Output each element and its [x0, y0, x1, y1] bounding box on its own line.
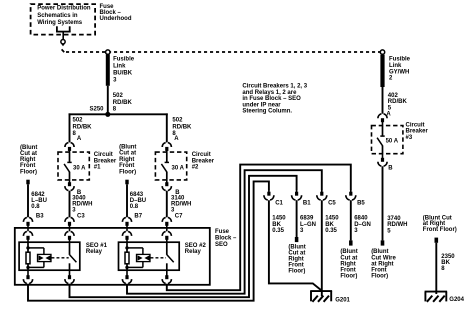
connector at fuse block top	[65, 217, 68, 221]
connector A of circuit breaker #1	[65, 143, 68, 147]
connector B1	[292, 195, 296, 200]
svg-text:(Blunt: (Blunt	[371, 249, 388, 255]
svg-text:GY/WH: GY/WH	[389, 69, 409, 75]
fusible link GY/WH (right)	[380, 50, 384, 54]
svg-text:1450: 1450	[325, 216, 339, 222]
svg-text:3040: 3040	[72, 196, 86, 202]
wire: 502 RD/BK 8 left branch	[69, 113, 71, 142]
svg-text:502: 502	[172, 118, 183, 124]
wire: 3740 RD/WH 5	[382, 166, 384, 240]
svg-text:Right: Right	[119, 157, 134, 163]
svg-text:RD/BK: RD/BK	[113, 100, 133, 106]
svg-text:(Blunt: (Blunt	[119, 145, 136, 151]
svg-text:Schematics in: Schematics in	[37, 13, 78, 19]
svg-text:under IP near: under IP near	[242, 102, 281, 108]
svg-text:6840: 6840	[354, 216, 368, 222]
svg-text:Cut at: Cut at	[20, 151, 37, 157]
svg-text:3740: 3740	[387, 216, 401, 222]
svg-text:BK: BK	[272, 222, 281, 228]
connector B of circuit breaker #1	[65, 186, 68, 190]
relay SEO #1	[19, 242, 80, 270]
svg-text:RD/BK: RD/BK	[388, 99, 408, 105]
wire: relay2 coil to C5	[127, 170, 322, 294]
svg-text:BK: BK	[441, 260, 450, 266]
svg-text:Floor): Floor)	[371, 274, 388, 280]
svg-text:D–GN: D–GN	[354, 222, 371, 228]
svg-text:Right: Right	[288, 257, 303, 263]
svg-text:3140: 3140	[171, 196, 185, 202]
connector B of circuit breaker #2	[162, 186, 165, 190]
svg-text:at Right: at Right	[371, 261, 393, 267]
svg-text:Circuit: Circuit	[94, 152, 113, 158]
svg-text:Fusible: Fusible	[389, 57, 411, 63]
svg-text:Link: Link	[113, 63, 126, 69]
svg-text:Relay: Relay	[86, 249, 103, 255]
svg-text:#2: #2	[192, 165, 199, 171]
connector at fuse block top	[23, 217, 26, 221]
reference box: Power Distribution Schematics in Wiring Systems	[31, 4, 96, 34]
svg-text:Front Floor): Front Floor)	[423, 227, 457, 233]
svg-text:1450: 1450	[272, 216, 286, 222]
svg-text:Link: Link	[389, 63, 402, 69]
svg-text:502: 502	[73, 118, 84, 124]
circuit breaker #3	[372, 126, 403, 154]
svg-text:(Blunt: (Blunt	[340, 249, 357, 255]
svg-text:BU/BK: BU/BK	[113, 70, 133, 76]
svg-text:#1: #1	[94, 165, 101, 171]
relay SEO #2	[119, 242, 180, 270]
svg-text:B3: B3	[36, 213, 44, 219]
svg-text:Cut at: Cut at	[340, 255, 357, 261]
svg-text:SEO #2: SEO #2	[185, 243, 207, 249]
svg-text:Floor): Floor)	[340, 274, 357, 280]
svg-text:Circuit: Circuit	[406, 123, 425, 129]
relay terminal connector	[166, 228, 168, 231]
svg-text:B7: B7	[134, 213, 142, 219]
svg-text:Floor): Floor)	[288, 269, 305, 275]
svg-text:30 A: 30 A	[73, 166, 86, 172]
svg-text:Relay: Relay	[185, 249, 202, 255]
svg-text:Fuse: Fuse	[100, 4, 115, 10]
wire: 3140 RD/WH 3	[166, 191, 168, 218]
svg-text:(Blunt: (Blunt	[20, 145, 37, 151]
connector C1	[264, 195, 268, 200]
svg-text:SEO #1: SEO #1	[86, 243, 108, 249]
relay bottom connector	[65, 279, 68, 283]
svg-text:0.35: 0.35	[325, 228, 337, 234]
svg-text:B1: B1	[303, 201, 311, 207]
svg-text:502: 502	[113, 93, 124, 99]
svg-text:2350: 2350	[441, 254, 455, 260]
svg-text:B: B	[388, 166, 393, 172]
svg-text:G201: G201	[335, 298, 350, 304]
svg-text:Front: Front	[119, 163, 134, 169]
connector at fuse block top	[162, 217, 165, 221]
svg-text:0.8: 0.8	[31, 204, 40, 210]
svg-text:0.35: 0.35	[272, 228, 284, 234]
svg-text:Front: Front	[371, 268, 386, 274]
svg-text:Front: Front	[20, 163, 35, 169]
wire: 2350 BK 8	[435, 238, 439, 243]
svg-text:#3: #3	[406, 135, 413, 141]
connector B of circuit breaker #3	[378, 162, 381, 166]
relay bottom connector	[23, 279, 26, 283]
svg-text:RD/BK: RD/BK	[172, 124, 192, 130]
svg-text:Cut Wire: Cut Wire	[371, 255, 396, 261]
svg-text:Cut at: Cut at	[119, 151, 136, 157]
svg-text:402: 402	[388, 93, 399, 99]
ground G204	[425, 291, 448, 293]
svg-text:50 A: 50 A	[386, 139, 399, 145]
wire: relay1 coil to C1	[28, 181, 269, 300]
wire: relay1 switch to B1	[70, 176, 297, 297]
svg-text:Breaker: Breaker	[94, 158, 117, 164]
connector at fuse block top	[122, 217, 125, 221]
svg-text:BK: BK	[325, 222, 334, 228]
wire: S250 horizontal	[69, 113, 168, 115]
wire: 402 RD/BK 5	[382, 87, 384, 114]
svg-text:Floor): Floor)	[119, 169, 136, 175]
svg-text:RD/BK: RD/BK	[73, 124, 93, 130]
svg-text:Circuit: Circuit	[192, 152, 211, 158]
svg-text:6839: 6839	[300, 216, 314, 222]
connector A of circuit breaker #3	[378, 114, 381, 118]
connector symbol to Fuse Block - Underhood	[56, 26, 58, 32]
relay terminal connector	[69, 228, 71, 231]
svg-text:RD/WH: RD/WH	[387, 222, 407, 228]
svg-text:Right: Right	[20, 157, 35, 163]
svg-text:Right: Right	[340, 261, 355, 267]
wire: 6840 D-GN 3 (B5)	[350, 200, 352, 240]
relay bottom connector	[162, 279, 165, 283]
connector C5	[317, 195, 321, 200]
wire: 6839 L-GN 3 (B1)	[296, 200, 298, 237]
fuse block SEO box	[15, 228, 210, 285]
svg-text:C1: C1	[275, 201, 283, 207]
svg-text:Fusible: Fusible	[113, 56, 135, 62]
svg-text:Floor): Floor)	[20, 169, 37, 175]
fusible link BU/BK (left)	[106, 50, 110, 54]
wire: 1450 BK 0.35 (C1)	[269, 200, 322, 291]
relay bottom connector	[122, 279, 125, 283]
svg-text:Fuse: Fuse	[215, 229, 230, 235]
svg-text:S250: S250	[89, 107, 104, 113]
svg-text:Block –: Block –	[215, 236, 237, 242]
svg-text:C3: C3	[77, 213, 85, 219]
svg-text:Power Distribution: Power Distribution	[37, 6, 91, 12]
svg-text:Wiring Systems: Wiring Systems	[37, 20, 83, 26]
svg-text:Circuit Breakers 1, 2, 3: Circuit Breakers 1, 2, 3	[242, 84, 307, 90]
connector A of circuit breaker #2	[162, 143, 165, 147]
svg-text:Breaker: Breaker	[192, 158, 215, 164]
svg-text:RD/WH: RD/WH	[72, 202, 92, 208]
svg-text:Underhood: Underhood	[100, 16, 132, 22]
relay terminal connector	[27, 228, 29, 231]
svg-text:RD/WH: RD/WH	[171, 202, 191, 208]
relay terminal connector	[126, 228, 128, 231]
svg-text:0.8: 0.8	[130, 204, 139, 210]
svg-text:B5: B5	[357, 201, 365, 207]
svg-text:30 A: 30 A	[172, 166, 185, 172]
svg-text:C5: C5	[328, 201, 336, 207]
svg-text:C7: C7	[175, 213, 183, 219]
svg-text:A: A	[77, 136, 82, 142]
connector B5	[346, 195, 350, 200]
wire: relay2 switch to B5	[167, 165, 351, 291]
wire: 3040 RD/WH 3	[69, 191, 71, 218]
wire: 502 RD/BK 8 right branch	[166, 113, 168, 142]
svg-text:in Fuse Block – SEO: in Fuse Block – SEO	[242, 96, 301, 102]
ground G201	[310, 290, 332, 292]
wire: 1450 BK 0.35 (C5)	[321, 200, 323, 296]
circuit breaker #1	[58, 152, 89, 180]
svg-text:Steering Column.: Steering Column.	[242, 109, 292, 115]
svg-text:and Relays 1, 2 are: and Relays 1, 2 are	[242, 90, 297, 96]
wire: 502 RD/BK 8	[107, 86, 109, 115]
svg-text:G204: G204	[449, 297, 464, 303]
svg-text:(Blunt: (Blunt	[288, 245, 305, 251]
wire: 6842 L-BU 0.8	[26, 180, 29, 185]
svg-text:Breaker: Breaker	[406, 129, 429, 135]
svg-text:SEO: SEO	[215, 242, 228, 248]
svg-text:A: A	[174, 136, 179, 142]
svg-text:Front: Front	[340, 268, 355, 274]
wire: 6843 D-BU 0.8	[125, 180, 128, 185]
svg-text:L–GN: L–GN	[300, 222, 316, 228]
wire: dashed line from underhood connector to fusible links	[62, 49, 65, 52]
circuit breaker #2	[155, 152, 186, 180]
